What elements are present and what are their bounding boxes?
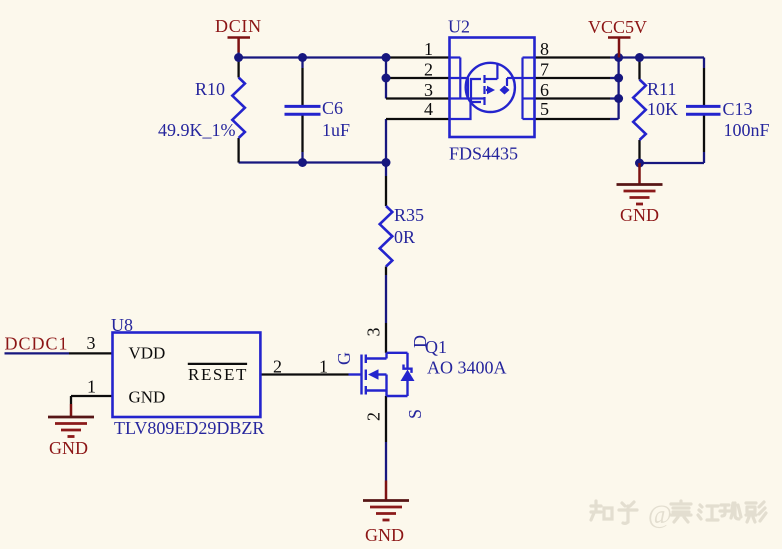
svg-text:VCC5V: VCC5V [588,17,647,37]
svg-text:3: 3 [364,328,384,337]
svg-text:1uF: 1uF [322,120,350,140]
svg-text:0R: 0R [394,227,415,247]
svg-text:U8: U8 [111,315,133,335]
svg-text:S: S [405,409,425,419]
svg-text:R10: R10 [195,79,225,99]
svg-text:2: 2 [424,60,433,80]
svg-text:RESET: RESET [188,365,248,384]
svg-text:100nF: 100nF [724,120,770,140]
svg-text:1: 1 [424,39,433,59]
svg-text:C13: C13 [723,99,753,119]
svg-text:8: 8 [540,39,549,59]
svg-text:U2: U2 [448,17,470,37]
svg-text:7: 7 [540,60,549,80]
svg-text:GND: GND [620,205,659,225]
svg-text:R35: R35 [394,205,424,225]
svg-text:49.9K_1%: 49.9K_1% [158,120,236,140]
svg-text:3: 3 [87,333,96,353]
svg-text:6: 6 [540,80,549,100]
svg-text:DCDC1: DCDC1 [5,334,69,354]
svg-text:DCIN: DCIN [215,16,262,36]
svg-text:D: D [410,335,430,348]
svg-text:FDS4435: FDS4435 [449,144,518,164]
svg-text:GND: GND [365,525,404,545]
svg-text:C6: C6 [322,98,343,118]
svg-text:GND: GND [49,438,88,458]
svg-text:AO 3400A: AO 3400A [427,358,507,378]
svg-text:1: 1 [319,357,328,377]
svg-text:2: 2 [364,412,384,421]
svg-text:5: 5 [540,99,549,119]
svg-text:10K: 10K [647,99,678,119]
svg-text:3: 3 [424,80,433,100]
svg-text:@: @ [648,500,672,529]
svg-text:VDD: VDD [129,344,166,363]
svg-text:GND: GND [129,388,166,407]
svg-text:R11: R11 [647,79,676,99]
svg-text:1: 1 [87,377,96,397]
svg-text:G: G [334,352,354,365]
svg-text:TLV809ED29DBZR: TLV809ED29DBZR [114,418,264,438]
svg-text:4: 4 [424,99,433,119]
svg-text:2: 2 [273,357,282,377]
